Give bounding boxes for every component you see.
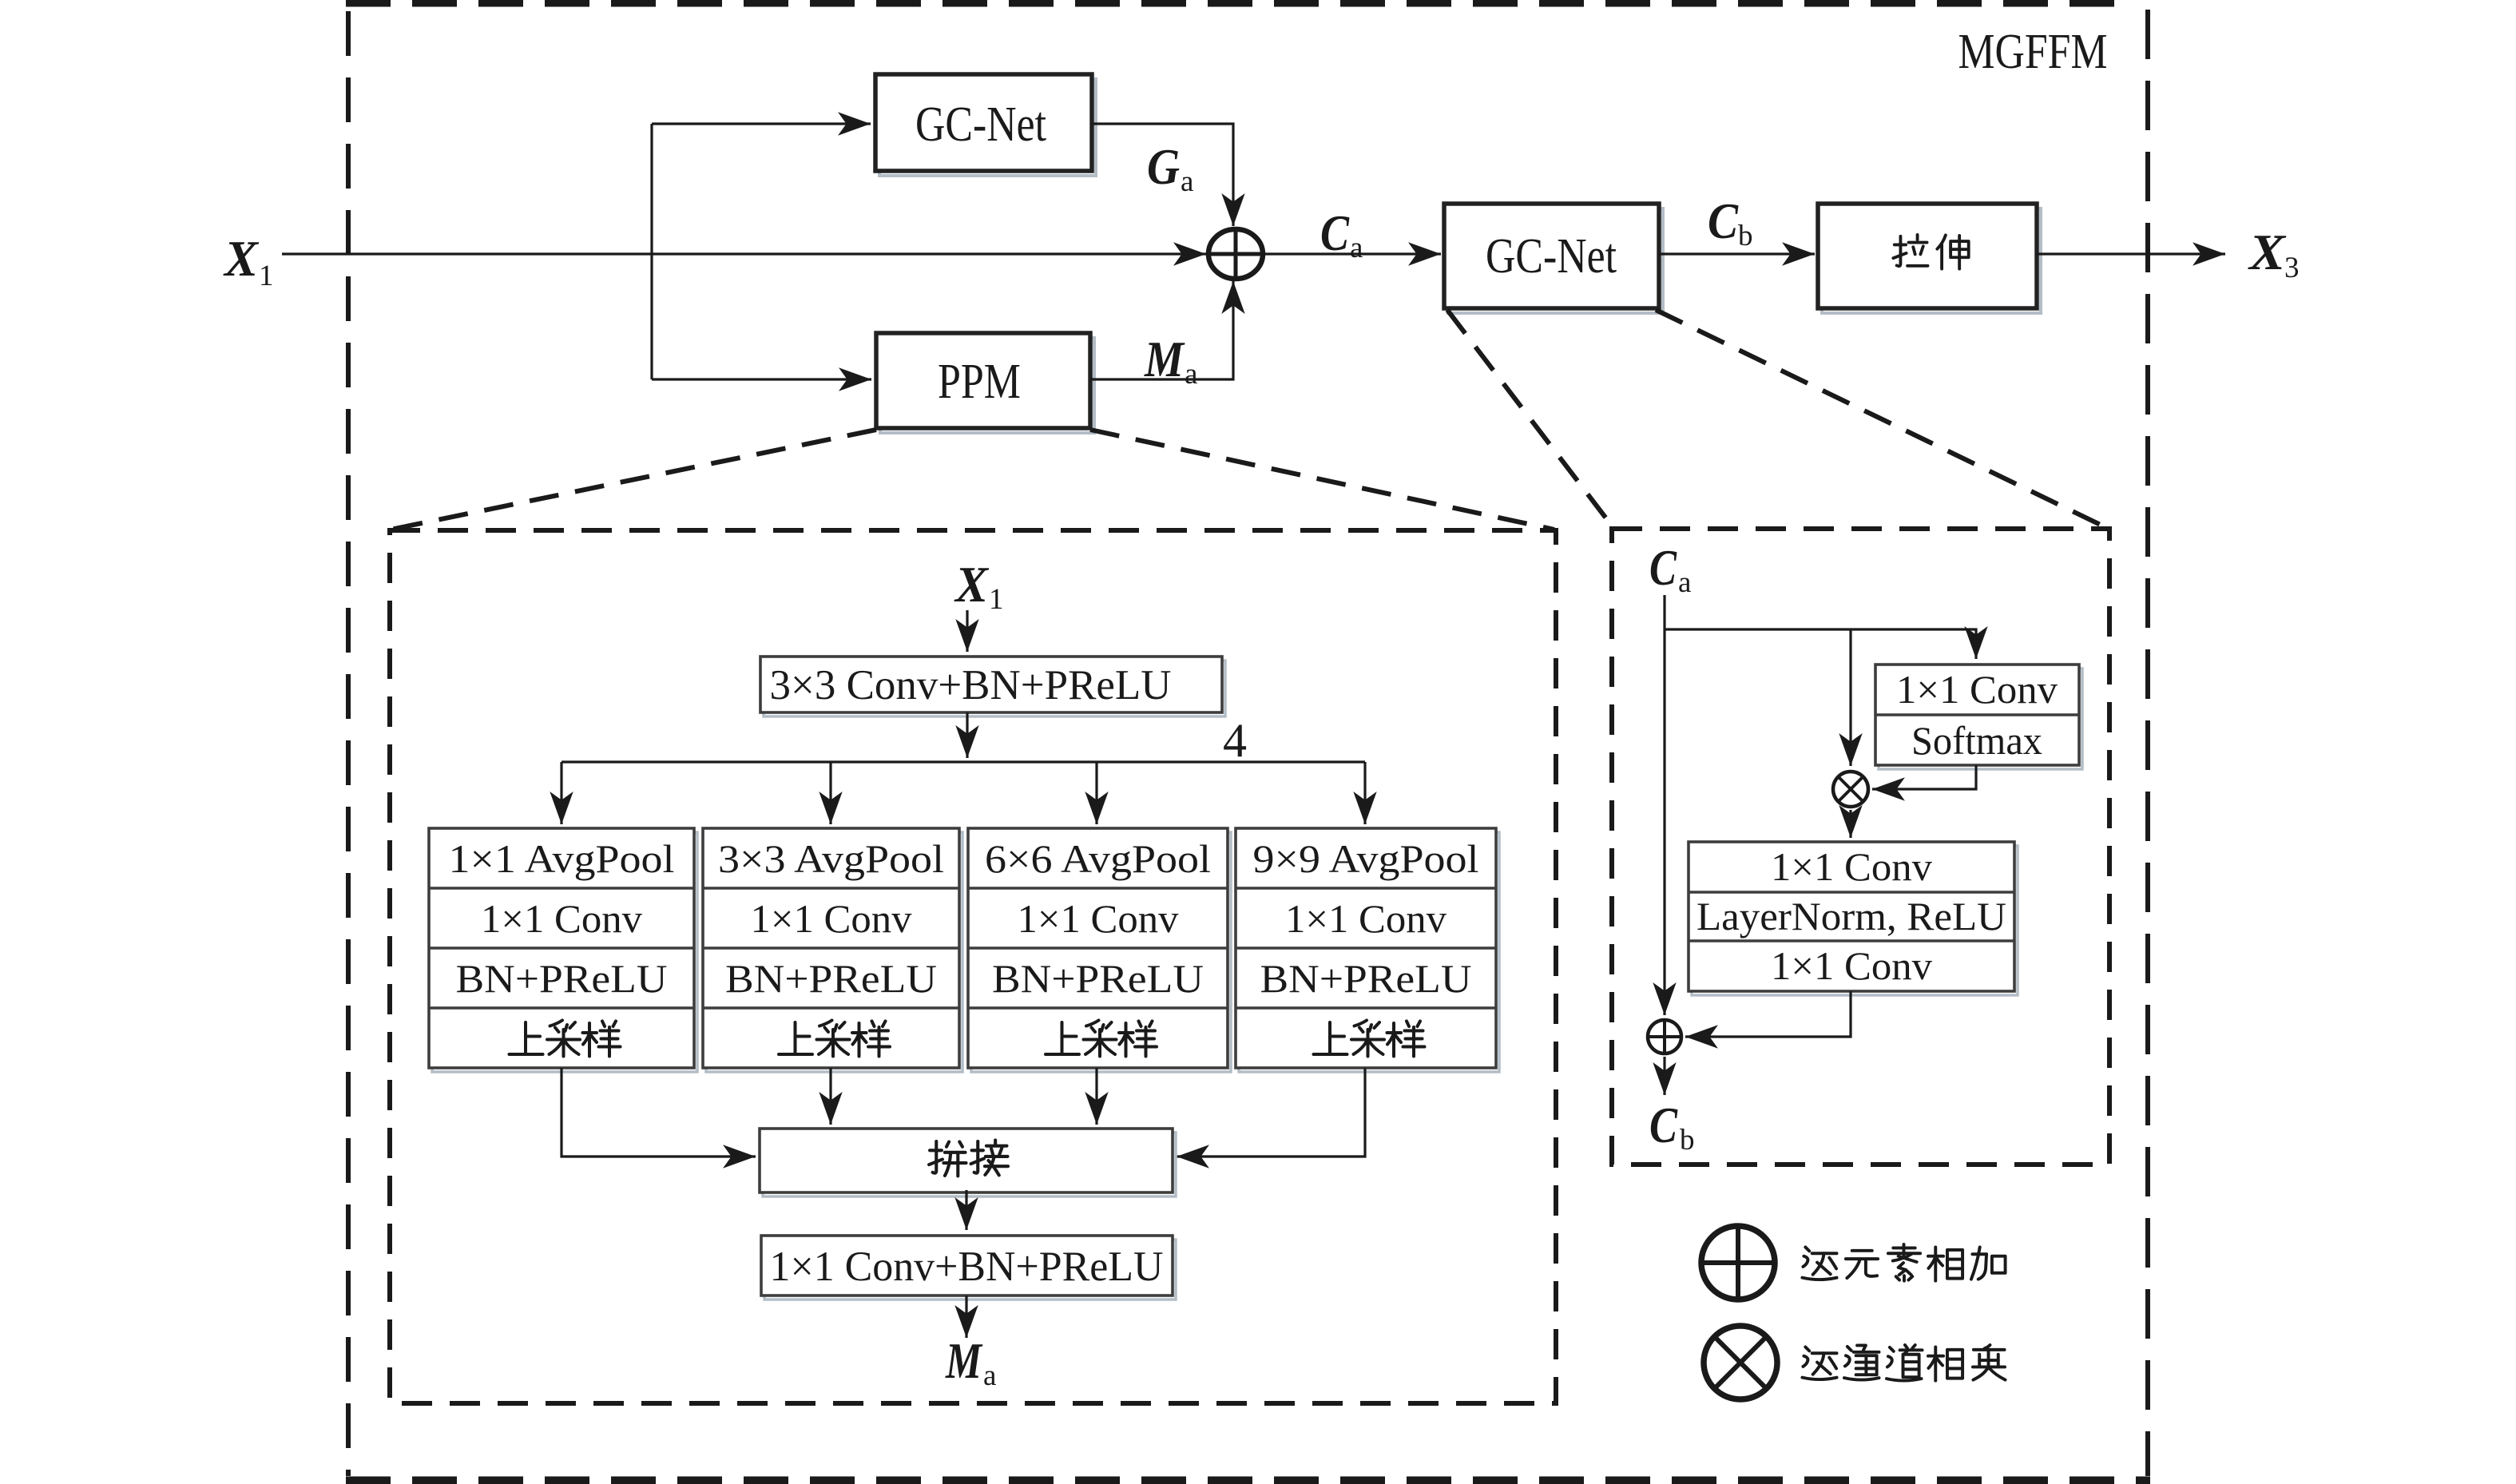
box 3x3 Conv+BN+PReLU xyxy=(760,657,1225,716)
svg-text:BN+PReLU: BN+PReLU xyxy=(456,956,668,1001)
svg-text:1×1 Conv: 1×1 Conv xyxy=(1018,896,1179,941)
svg-text:C: C xyxy=(1649,539,1677,596)
svg-text:1: 1 xyxy=(259,260,274,292)
node X3 output label xyxy=(2248,224,2300,284)
arrow column 3 to concat xyxy=(1095,1068,1097,1125)
text la-shen (stretch) xyxy=(1893,235,1927,266)
adder circle (element-wise add) top flow xyxy=(1208,229,1263,279)
arrow multiplier down xyxy=(1849,810,1851,838)
wire column 4 to concat xyxy=(1177,1068,1365,1157)
svg-text:Softmax: Softmax xyxy=(1911,718,2042,763)
svg-text:1×1 Conv: 1×1 Conv xyxy=(1285,896,1447,941)
svg-text:4: 4 xyxy=(1223,714,1247,767)
svg-text:1×1 AvgPool: 1×1 AvgPool xyxy=(449,836,675,881)
label Cb output of GC-Net detail xyxy=(1649,1097,1695,1157)
multiplier circle (channel-wise multiply) in detail xyxy=(1833,772,1868,807)
arrow drop to column 2 xyxy=(829,762,831,824)
arrow concat down xyxy=(965,1190,967,1230)
svg-text:GC-Net: GC-Net xyxy=(1486,229,1617,284)
box 1x1 Conv / Softmax xyxy=(1875,665,2082,769)
arrow drop to column 1 xyxy=(560,762,562,824)
svg-text:GC-Net: GC-Net xyxy=(915,97,1046,152)
callout dashed diagonal PPM left xyxy=(391,430,876,530)
node X1 input label xyxy=(223,230,273,292)
legend text channel-wise multiply (zhu-tong-dao-xiang-cheng) xyxy=(1802,1347,1836,1379)
label Ca in GC-Net detail xyxy=(1649,539,1691,599)
label Ma output of PPM detail xyxy=(945,1332,996,1392)
svg-text:MGFFM: MGFFM xyxy=(1958,25,2108,79)
svg-text:M: M xyxy=(945,1332,982,1389)
svg-text:1×1 Conv: 1×1 Conv xyxy=(1771,943,1932,988)
legend multiplier symbol (channel-wise multiply) xyxy=(1704,1326,1777,1399)
arrow drop to column 3 xyxy=(1095,762,1097,824)
wire softmax to multiplier xyxy=(1872,765,1976,789)
arrow mid branch to multiplier xyxy=(1849,629,1851,766)
wire stretch to X3 output xyxy=(2037,252,2225,255)
box concat (pin-jie) xyxy=(760,1129,1176,1196)
box 1x1 Conv+BN+PReLU xyxy=(761,1236,1176,1299)
svg-text:BN+PReLU: BN+PReLU xyxy=(1260,956,1472,1001)
svg-text:1×1 Conv: 1×1 Conv xyxy=(481,896,642,941)
arrow column 2 to concat xyxy=(829,1068,831,1125)
MGFFM outer dashed border: top edge xyxy=(346,0,2125,7)
wire branch to 1x1 conv softmax xyxy=(1665,629,1976,659)
svg-text:M: M xyxy=(1144,331,1185,387)
wire branch to PPM xyxy=(652,378,871,380)
legend adder symbol (element-wise add) xyxy=(1701,1226,1775,1299)
svg-text:X: X xyxy=(2248,224,2286,280)
box stretch (la-shen) xyxy=(1818,204,2041,313)
label Ca xyxy=(1320,204,1363,264)
wire Cb from GC-Net to stretch xyxy=(1659,252,1815,255)
PPM detail dashed box xyxy=(390,530,1556,1403)
table column 3: 6×6 AvgPool stack xyxy=(968,828,1231,1072)
svg-text:3: 3 xyxy=(2284,252,2300,284)
arrow X1 down to conv box xyxy=(966,610,968,652)
GC-Net detail dashed box xyxy=(1612,529,2109,1165)
label X1 in PPM detail xyxy=(954,556,1003,616)
wire branch vertical xyxy=(650,124,653,379)
wire branch to GC-Net top xyxy=(652,122,871,125)
svg-text:a: a xyxy=(1185,358,1197,391)
wire conv stack to adder xyxy=(1685,991,1851,1037)
arrow conv box down to split line xyxy=(966,712,968,758)
svg-text:G: G xyxy=(1147,138,1180,195)
svg-text:PPM: PPM xyxy=(938,355,1021,409)
box PPM xyxy=(876,333,1094,433)
svg-text:1: 1 xyxy=(989,583,1004,616)
svg-text:C: C xyxy=(1649,1097,1678,1153)
svg-text:3×3 AvgPool: 3×3 AvgPool xyxy=(718,836,944,881)
svg-text:a: a xyxy=(1678,566,1691,599)
svg-text:b: b xyxy=(1738,220,1753,252)
wire Ga from GC-Net to adder xyxy=(1092,124,1233,226)
wire Ma from PPM to adder xyxy=(1090,281,1233,379)
box GC-Net (top branch) xyxy=(875,74,1096,176)
svg-text:6×6 AvgPool: 6×6 AvgPool xyxy=(985,836,1211,881)
label Ga xyxy=(1147,138,1193,198)
MGFFM outer dashed border: left edge xyxy=(346,11,351,1476)
table column 2: 3×3 AvgPool stack xyxy=(703,828,962,1072)
table column 4: 9×9 AvgPool stack xyxy=(1236,828,1499,1072)
arrow adder down to Cb xyxy=(1663,1057,1665,1095)
text pin-jie (concat) xyxy=(929,1141,966,1176)
svg-text:1×1 Conv: 1×1 Conv xyxy=(751,896,912,941)
MGFFM outer dashed border: right edge xyxy=(2145,10,2150,1476)
legend text element-wise add (zhu-yuan-su-xiang-jia) xyxy=(1802,1247,1836,1280)
box 1x1 Conv / LayerNorm ReLU / 1x1 Conv xyxy=(1689,842,2018,995)
label Cb xyxy=(1708,192,1753,252)
svg-text:b: b xyxy=(1680,1124,1695,1157)
wire X1 main line into adder xyxy=(282,252,1206,255)
wire distribution line xyxy=(562,760,1365,763)
svg-text:C: C xyxy=(1708,192,1739,249)
MGFFM outer dashed border: bottom edge xyxy=(346,1477,2150,1484)
wire Ca from adder to GC-Net xyxy=(1262,252,1441,255)
wire Ca main vertical to adder xyxy=(1663,595,1665,1015)
svg-text:BN+PReLU: BN+PReLU xyxy=(992,956,1204,1001)
arrow to Ma output xyxy=(965,1296,967,1338)
svg-text:X: X xyxy=(223,230,259,287)
table column 1: 1×1 AvgPool stack xyxy=(429,828,697,1072)
adder circle (element-wise add) in detail xyxy=(1648,1020,1681,1053)
svg-text:a: a xyxy=(1350,232,1363,264)
svg-text:1×1 Conv+BN+PReLU: 1×1 Conv+BN+PReLU xyxy=(770,1244,1164,1290)
box GC-Net (second) xyxy=(1444,204,1663,313)
callout dashed diagonal GC-Net right xyxy=(1656,310,2105,527)
svg-text:9×9 AvgPool: 9×9 AvgPool xyxy=(1253,836,1479,881)
label Ma xyxy=(1144,331,1197,391)
callout dashed diagonal GC-Net left xyxy=(1447,310,1613,528)
svg-text:3×3 Conv+BN+PReLU: 3×3 Conv+BN+PReLU xyxy=(770,662,1172,708)
svg-text:BN+PReLU: BN+PReLU xyxy=(725,956,937,1001)
arrow drop to column 4 xyxy=(1363,762,1366,824)
svg-text:1×1 Conv: 1×1 Conv xyxy=(1771,844,1932,889)
svg-text:a: a xyxy=(983,1359,996,1392)
svg-text:LayerNorm, ReLU: LayerNorm, ReLU xyxy=(1697,894,2006,938)
wire column 1 to concat xyxy=(562,1068,756,1157)
svg-text:1×1 Conv: 1×1 Conv xyxy=(1896,667,2058,712)
callout dashed diagonal PPM right xyxy=(1090,430,1554,530)
svg-text:C: C xyxy=(1320,204,1350,261)
svg-text:a: a xyxy=(1181,165,1193,198)
svg-text:X: X xyxy=(954,556,989,613)
